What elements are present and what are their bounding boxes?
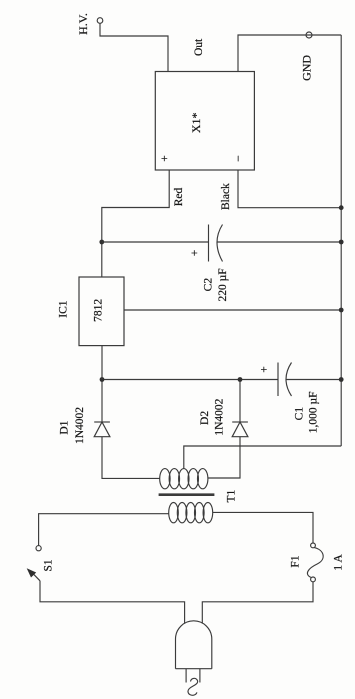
svg-text:H.V.: H.V. <box>76 13 90 35</box>
node dot D2 junction <box>238 377 243 382</box>
transformer T1 core <box>159 493 215 496</box>
switch S1 contact circle <box>36 546 41 551</box>
svg-text:Black: Black <box>220 183 232 210</box>
wire 7812 ground pin to rail <box>124 309 341 311</box>
svg-text:+: + <box>189 250 201 257</box>
wire plug upper terminal to switch <box>40 581 185 624</box>
svg-text:IC1: IC1 <box>57 300 69 318</box>
svg-text:D2: D2 <box>199 411 211 425</box>
svg-text:C2: C2 <box>202 278 214 292</box>
fuse F1 <box>307 543 323 582</box>
node dot 7812 gnd/rail <box>339 308 344 313</box>
svg-text:F1: F1 <box>290 555 302 567</box>
wire X1 black lead <box>238 170 341 208</box>
unregulated rail (D1 node down to C1) <box>102 379 278 381</box>
plug P1 (wall plug body) <box>176 621 212 669</box>
svg-text:1 A: 1 A <box>333 554 345 571</box>
svg-text:GND: GND <box>300 55 314 81</box>
svg-text:7812: 7812 <box>92 299 104 322</box>
svg-text:+: + <box>259 366 271 373</box>
svg-text:D1: D1 <box>59 420 71 434</box>
capacitor C1 <box>278 363 341 397</box>
multiplier module X1 box <box>155 72 254 171</box>
wire X1 gnd pin to ground rail <box>238 35 341 72</box>
wire input node to 7812 <box>101 346 103 380</box>
transformer T1 secondary winding <box>160 469 208 489</box>
svg-text:+: + <box>159 155 171 162</box>
diode D1 <box>94 422 110 437</box>
plug prong upper <box>185 669 187 683</box>
svg-text:1,000 µF: 1,000 µF <box>308 391 320 433</box>
transformer T1 primary winding <box>169 503 213 523</box>
wire primary bottom to fuse <box>213 512 313 542</box>
plug prong lower <box>199 669 201 683</box>
node dot C2/rail <box>339 240 344 245</box>
svg-text:X1*: X1* <box>189 112 203 133</box>
wire secondary top lead <box>102 437 160 479</box>
wire D1 cathode to input node <box>101 380 103 423</box>
svg-text:−: − <box>233 155 245 162</box>
node dot black/rail <box>339 205 344 210</box>
svg-text:Out: Out <box>193 38 205 56</box>
wire secondary bottom lead <box>208 437 240 478</box>
node dot C1/rail <box>339 377 344 382</box>
wire switch to transformer primary top <box>39 514 169 546</box>
diode D2 <box>232 422 248 437</box>
regulator IC1 7812 box <box>79 277 124 346</box>
wire fuse to plug lower terminal <box>202 582 313 624</box>
plug cord squiggle <box>188 678 198 695</box>
node dot C2/red <box>99 240 104 245</box>
wire center tap to ground rail <box>184 446 341 469</box>
svg-text:220 µF: 220 µF <box>217 268 229 301</box>
wire 7812 output to X1 (red node) <box>102 170 169 277</box>
switch S1 arm with arrowhead <box>27 568 40 581</box>
GND terminal circle <box>306 32 312 38</box>
svg-text:1N4002: 1N4002 <box>214 398 226 435</box>
H.V. terminal circle <box>97 18 103 24</box>
svg-text:1N4002: 1N4002 <box>74 407 86 444</box>
svg-text:S1: S1 <box>42 559 54 571</box>
svg-text:T1: T1 <box>226 489 238 502</box>
node dot D1/7812 input <box>100 377 105 382</box>
wire D2 cathode to C1 node <box>239 380 241 423</box>
svg-text:Red: Red <box>173 187 185 206</box>
svg-text:C1: C1 <box>293 407 305 421</box>
wire X1 out to H.V. terminal <box>100 23 168 71</box>
ground rail <box>340 35 342 446</box>
capacitor C2 <box>102 225 341 262</box>
